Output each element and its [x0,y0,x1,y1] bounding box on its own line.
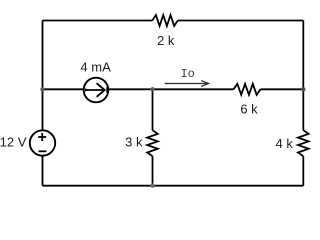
wire top-right horizontal segment [178,20,303,22]
resistor R 6k zigzag [234,84,261,95]
wire left vertical upper segment [42,21,44,131]
junction dot 3k top [150,87,154,91]
wire middle center segment [108,88,233,90]
junction dot right middle [301,87,305,91]
wire middle right segment [261,88,304,90]
voltage source minus sign [38,150,46,152]
wire right vertical upper segment [302,21,304,131]
junction dot 3k bottom [150,184,154,188]
current source I1 4mA circle [84,78,109,103]
wire 3k branch upper segment [152,89,154,130]
svg-text:4 mA: 4 mA [80,60,111,75]
resistor R 4k zigzag [298,130,309,156]
resistor R 2k zigzag [152,15,178,26]
wire middle left segment [43,88,84,90]
voltage source V1 12V circle [30,130,55,155]
resistor R 3k zigzag [147,130,158,156]
junction dot left middle [40,87,44,91]
svg-text:12 V: 12 V [0,135,27,150]
svg-text:3 k: 3 k [125,134,143,149]
voltage source plus sign [38,133,46,141]
Io current arrow [165,81,209,87]
current source right lead tick [106,87,108,93]
svg-text:Io: Io [180,67,194,81]
svg-text:2 k: 2 k [157,33,175,48]
svg-text:6 k: 6 k [240,102,258,117]
wire top-left horizontal segment [43,20,153,22]
wire 3k branch lower segment [152,156,154,186]
current source arrow shaft [86,89,103,91]
wire bottom horizontal [43,185,304,187]
svg-text:4 k: 4 k [276,136,294,151]
wire right vertical lower segment [302,156,304,186]
wire left vertical lower segment [42,156,44,186]
current source left lead tick [85,88,89,92]
current source arrowhead [97,83,105,97]
